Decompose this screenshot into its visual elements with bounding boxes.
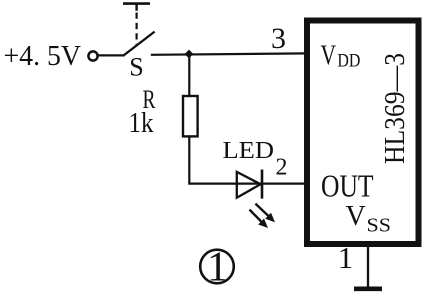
- wire IC pin 1 to ground: [367, 244, 369, 289]
- svg-text:1: 1: [338, 240, 354, 275]
- LED light emission arrow 2: [250, 210, 269, 228]
- svg-text:DD: DD: [337, 51, 360, 72]
- LED cathode bar: [261, 170, 264, 199]
- svg-text:LED: LED: [223, 138, 275, 164]
- IC U1 HL369-3 body: [307, 21, 419, 245]
- svg-text:2: 2: [276, 155, 288, 181]
- wire from terminal to switch: [98, 54, 125, 56]
- switch S pushbutton actuator cap: [123, 2, 150, 5]
- svg-text:1: 1: [207, 245, 228, 291]
- junction node dot: [185, 50, 194, 59]
- switch S actuator dashed link: [136, 13, 138, 47]
- ground bar: [354, 286, 382, 291]
- wire from switch to IC pin 3 (VDD net): [151, 53, 307, 54]
- wire junction to resistor: [188, 54, 190, 97]
- pin label VSS: [346, 201, 392, 237]
- switch S actuator stem: [135, 3, 137, 11]
- figure number circled 1: [200, 245, 234, 291]
- svg-text:SS: SS: [367, 216, 392, 237]
- svg-text:+4. 5V: +4. 5V: [4, 40, 82, 72]
- svg-text:OUT: OUT: [321, 168, 374, 204]
- wire LED to IC pin 2 (OUT net): [262, 183, 307, 185]
- svg-text:3: 3: [271, 22, 286, 55]
- LED light emission arrow 1: [255, 204, 275, 223]
- LED anode triangle: [237, 172, 261, 198]
- pin label VDD: [321, 41, 361, 72]
- svg-text:V: V: [321, 41, 337, 72]
- wire resistor to LED corner: [189, 136, 262, 184]
- svg-text:S: S: [129, 53, 143, 82]
- svg-text:1k: 1k: [129, 108, 154, 139]
- terminal circle: [88, 51, 97, 60]
- svg-text:HL369—3: HL369—3: [380, 53, 411, 164]
- switch S blade: [123, 32, 155, 56]
- svg-text:V: V: [346, 201, 366, 232]
- resistor R body: [183, 96, 198, 136]
